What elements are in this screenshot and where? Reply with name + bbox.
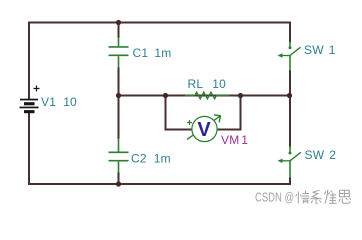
svg-text:V: V	[197, 119, 211, 141]
svg-text:C21m: C21m	[131, 152, 171, 166]
svg-text:C11m: C11m	[133, 46, 172, 60]
svg-text:SW2: SW2	[305, 148, 337, 162]
svg-text:SW1: SW1	[304, 43, 336, 57]
svg-text:V110: V110	[41, 95, 77, 109]
svg-text:VM1: VM1	[221, 133, 248, 147]
svg-text:CSDN @: CSDN @	[255, 190, 294, 204]
svg-text:RL10: RL10	[188, 77, 227, 91]
